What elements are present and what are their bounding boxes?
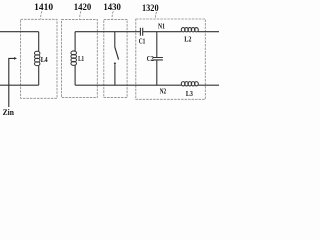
svg-text:N2: N2 [160,86,167,95]
svg-text:1410: 1410 [34,3,53,13]
wire: bottom rail right of L3 [198,84,219,86]
switch arm [115,47,119,60]
wire: L4 top lead [38,32,40,52]
leader 1420 [80,11,81,19]
svg-text:N1: N1 [158,22,165,31]
svg-text:L4: L4 [41,55,48,64]
wire: input bottom rail [0,84,39,86]
inductor L2 [181,28,198,32]
dashed box 1430 [104,19,127,97]
switch bottom lead [114,64,116,85]
wire: C2 bottom lead [156,60,158,85]
switch contact dot [114,62,116,64]
wire: input top rail [0,31,39,33]
leader 1410 [41,11,42,19]
inductor L1 [71,51,77,65]
leader 1320 [155,12,156,19]
leader 1430 [112,11,113,19]
wire: rail C1 to L2 [143,31,182,33]
svg-text:1420: 1420 [74,3,92,13]
wire: L1 bottom lead [74,65,76,85]
wire: bottom rail [75,84,181,86]
switch top lead [114,32,116,47]
wire: 1420 top rail to C1 [75,31,140,33]
dashed box 1320 [136,19,206,99]
inductor L4 [35,51,40,65]
dashed box 1420 [62,19,98,97]
svg-text:L3: L3 [186,89,193,98]
inductor L3 [181,82,198,86]
svg-text:L2: L2 [184,34,191,43]
svg-text:1430: 1430 [103,3,121,13]
capacitor C1 [140,28,142,36]
wire: L1 top lead [74,32,76,51]
Zin arrow [9,58,15,107]
svg-text:C1: C1 [139,37,146,46]
svg-text:C2: C2 [147,54,154,63]
wire: L4 bottom lead [38,66,40,86]
svg-text:Zin: Zin [3,108,15,117]
wire: top rail right of L2 [198,31,219,33]
capacitor C2 [153,58,163,60]
svg-text:L1: L1 [78,54,84,63]
dashed box 1410 [21,19,57,98]
wire: C2 top lead [156,32,158,58]
